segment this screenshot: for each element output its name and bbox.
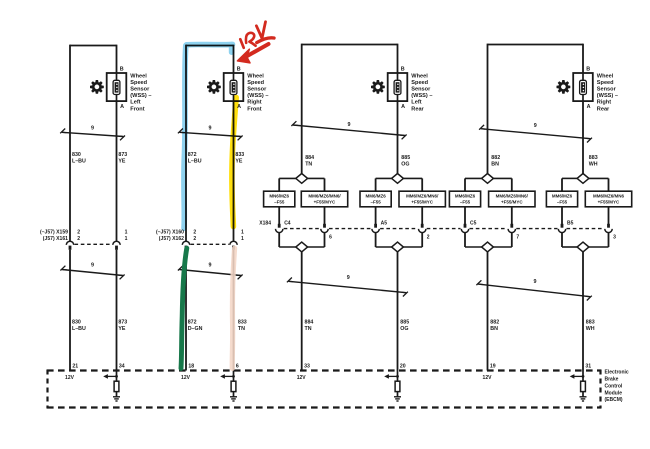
svg-text:Sensor: Sensor xyxy=(411,87,431,93)
wire splice arm left, pair 2 xyxy=(376,177,392,179)
svg-text:9: 9 xyxy=(534,279,537,285)
svg-text:Front: Front xyxy=(130,106,144,112)
svg-text:A: A xyxy=(587,104,591,110)
svg-text:2: 2 xyxy=(193,236,196,242)
svg-text:A: A xyxy=(120,104,124,110)
svg-text:9: 9 xyxy=(91,263,94,269)
svg-text:BN: BN xyxy=(491,162,499,168)
svg-text:873: 873 xyxy=(118,152,127,158)
svg-text:2: 2 xyxy=(77,229,80,235)
svg-text:9: 9 xyxy=(209,125,212,131)
svg-text:Left: Left xyxy=(411,100,421,106)
wheel speed sensor WSS Right Front xyxy=(224,73,244,101)
svg-text:883: 883 xyxy=(589,155,598,161)
svg-text:2: 2 xyxy=(77,236,80,242)
svg-text:21: 21 xyxy=(72,364,78,370)
wire label 873 YE lower xyxy=(118,320,127,332)
wire front circuit 1 left, lower run to EBCM xyxy=(69,250,71,371)
svg-text:Front: Front xyxy=(247,106,261,112)
svg-text:12V: 12V xyxy=(297,375,307,381)
svg-text:MM6/MZ6: MM6/MZ6 xyxy=(455,194,476,199)
highlighter mark: yellow over 833 upper run xyxy=(232,98,236,227)
svg-text:1: 1 xyxy=(125,229,128,235)
svg-text:Sensor: Sensor xyxy=(130,87,150,93)
component name label: Wheel Speed Sensor (WSS) WSS Left Rear xyxy=(411,74,432,113)
wire splice arm right, pair 3 xyxy=(493,177,511,179)
svg-text:Right: Right xyxy=(597,100,611,106)
svg-text:BN: BN xyxy=(490,326,498,332)
gear / tone wheel icon for WSS Left Rear xyxy=(371,80,385,94)
svg-text:872: 872 xyxy=(188,152,197,158)
svg-text:–F55: –F55 xyxy=(460,199,471,204)
svg-text:B: B xyxy=(120,66,124,72)
wire merge arm right, pair 3 xyxy=(493,246,511,248)
gear / tone wheel icon for WSS Left Front xyxy=(90,80,104,94)
wire rear circuit 4 right, to sensor pin B xyxy=(582,44,584,73)
wire right branch to connector X184, pair 4 xyxy=(608,207,610,225)
svg-text:31: 31 xyxy=(585,364,591,370)
wire splice arm left, pair 3 xyxy=(465,177,482,179)
harness crossing symbol "9" (RR lower) xyxy=(476,279,591,300)
wire label 833 YE upper xyxy=(235,152,244,164)
svg-text:872: 872 xyxy=(188,320,197,326)
wire right branch into option box, pair 2 xyxy=(421,178,423,191)
svg-text:833: 833 xyxy=(238,320,247,326)
svg-text:WH: WH xyxy=(586,326,595,332)
wire front circuit 1 right, to sensor pin B xyxy=(116,45,118,73)
svg-text:2: 2 xyxy=(427,235,430,241)
inline connector terminal X160/X162 cavity 2 xyxy=(182,241,189,250)
svg-text:B: B xyxy=(586,66,590,72)
wire merged wire to EBCM, pair 4 xyxy=(582,252,584,371)
wire left branch into option box, pair 3 xyxy=(464,178,466,191)
option box MM6/MZ6 –F55 (pair 4) xyxy=(546,191,577,207)
svg-text:D–GN: D–GN xyxy=(188,326,203,332)
wire left branch below X184, pair 2 xyxy=(375,233,377,247)
wire label 884 TN lower xyxy=(305,320,314,332)
svg-text:B: B xyxy=(237,66,241,72)
svg-text:Rear: Rear xyxy=(597,106,610,112)
svg-text:Brake: Brake xyxy=(605,377,619,383)
wire right branch below X184, pair 1 xyxy=(324,233,326,247)
splice junction split S3 top xyxy=(482,174,494,184)
wire right branch to connector X184, pair 1 xyxy=(324,207,326,225)
option box MM6/MZ6 –F55 (pair 3) xyxy=(449,191,480,207)
wire splice arm right, pair 2 xyxy=(403,177,422,179)
pin numbers 2/2 at connector X159/X161 left xyxy=(77,229,80,242)
splice junction splice S3 bottom xyxy=(482,242,494,252)
svg-text:(WSS) –: (WSS) – xyxy=(130,93,151,99)
svg-text:18: 18 xyxy=(188,364,194,370)
svg-text:9: 9 xyxy=(91,125,94,131)
wire front circuit 2 right, sensor pin A down to connector xyxy=(233,101,235,241)
splice junction split S2 top xyxy=(392,174,404,184)
svg-text:TN: TN xyxy=(305,162,312,168)
wire left branch into option box, pair 1 xyxy=(278,178,280,191)
splice junction split S1 top xyxy=(296,174,308,184)
gear / tone wheel icon for WSS Right Front xyxy=(207,80,221,94)
inline connector terminal X184 pin 6 xyxy=(321,224,328,233)
wire merge arm left, pair 3 xyxy=(465,246,482,248)
svg-text:6: 6 xyxy=(329,235,332,241)
svg-text:B: B xyxy=(401,66,405,72)
wire label 884 TN upper xyxy=(305,155,314,167)
wire label 883 WH upper xyxy=(589,155,598,167)
harness crossing symbol "9" (LR upper) xyxy=(291,121,406,139)
splice junction splice S1 bottom xyxy=(296,242,308,252)
svg-text:WH: WH xyxy=(589,162,598,168)
svg-text:Left: Left xyxy=(130,100,140,106)
wire rear circuit 3 right, to sensor pin B xyxy=(397,44,399,73)
wire front circuit 2 left, upper run xyxy=(185,45,187,241)
svg-text:A: A xyxy=(401,104,405,110)
inline connector terminal X184 C5 xyxy=(461,224,468,233)
wire right branch below X184, pair 4 xyxy=(608,233,610,247)
svg-text:Wheel: Wheel xyxy=(130,74,147,80)
module name label: Electronic Brake Control Module (EBCM) xyxy=(605,370,629,404)
svg-text:9: 9 xyxy=(209,263,212,269)
svg-text:882: 882 xyxy=(491,155,500,161)
wire merge arm left, pair 2 xyxy=(376,246,392,248)
svg-text:X184: X184 xyxy=(259,221,271,227)
wire label 830 L-BU upper xyxy=(72,152,86,164)
option box MM6/MZ6/MN6/ +F55/MYC (pair 2) xyxy=(399,191,445,207)
svg-text:Speed: Speed xyxy=(130,80,147,86)
wheel speed sensor WSS Right Rear xyxy=(573,73,593,101)
pin numbers 2/2 at connector X160/X162 left xyxy=(193,229,196,242)
wire right branch into option box, pair 4 xyxy=(608,178,610,191)
svg-text:(–J57) X160: (–J57) X160 xyxy=(156,229,184,235)
svg-text:(WSS) –: (WSS) – xyxy=(247,93,268,99)
wire splice arm right, pair 4 xyxy=(589,177,609,179)
svg-text:L–BU: L–BU xyxy=(72,159,86,165)
wire front circuit 2 right, lower run to EBCM xyxy=(233,250,235,371)
wire merged wire to EBCM, pair 1 xyxy=(301,252,303,371)
wire label 885 OG lower xyxy=(400,320,409,332)
svg-text:9: 9 xyxy=(534,123,537,129)
svg-text:OG: OG xyxy=(401,162,409,168)
svg-text:YE: YE xyxy=(235,159,243,165)
wire rear circuit 4 right, pin A down to splice xyxy=(582,101,584,174)
splice junction split S4 top xyxy=(577,174,589,184)
svg-text:884: 884 xyxy=(305,155,314,161)
svg-text:(–J57) X159: (–J57) X159 xyxy=(40,229,68,235)
svg-text:34: 34 xyxy=(119,364,125,370)
svg-text:12V: 12V xyxy=(483,375,493,381)
svg-text:Right: Right xyxy=(247,100,261,106)
svg-text:TN: TN xyxy=(305,326,312,332)
svg-text:885: 885 xyxy=(400,320,409,326)
svg-text:B5: B5 xyxy=(567,221,574,227)
svg-text:+F55/MYC: +F55/MYC xyxy=(501,199,523,204)
wire right branch to connector X184, pair 3 xyxy=(511,207,513,225)
svg-text:(J57) X162: (J57) X162 xyxy=(159,236,184,242)
pin numbers 1/1 at connector X159/X161 right xyxy=(125,229,128,242)
svg-text:L–BU: L–BU xyxy=(188,159,202,165)
wire left branch to connector X184, pair 3 xyxy=(464,207,466,225)
internal pull-down: arrow, resistor and ground at terminal 31 (883 return) xyxy=(570,371,587,402)
svg-text:MM6/MZ6/MN6/: MM6/MZ6/MN6/ xyxy=(496,194,529,199)
svg-text:Electronic: Electronic xyxy=(605,370,629,376)
wire left branch into option box, pair 4 xyxy=(561,178,563,191)
wheel speed sensor WSS Left Front xyxy=(107,73,127,101)
wire splice arm left, pair 4 xyxy=(562,177,577,179)
inline connector terminal X184 pin 3 xyxy=(605,224,612,233)
wire top loop of rear circuit 4 xyxy=(488,44,584,46)
dashed connector body X159/X161 xyxy=(75,243,113,245)
component name label: Wheel Speed Sensor (WSS) WSS Right Front xyxy=(247,74,268,113)
svg-text:+F55/MYC: +F55/MYC xyxy=(598,199,620,204)
svg-text:1: 1 xyxy=(241,229,244,235)
wire top loop of rear circuit 3 xyxy=(302,44,398,46)
wire right branch into option box, pair 3 xyxy=(511,178,513,191)
svg-text:873: 873 xyxy=(118,320,127,326)
harness crossing symbol "9" (LF lower) xyxy=(60,263,124,280)
handwritten annotation: red "12V" text xyxy=(240,22,274,48)
wire front circuit 2 left, lower run to EBCM xyxy=(185,250,187,371)
svg-text:(J57) X161: (J57) X161 xyxy=(43,236,68,242)
svg-text:Rear: Rear xyxy=(411,106,424,112)
svg-text:–F55: –F55 xyxy=(274,199,285,204)
svg-text:882: 882 xyxy=(490,320,499,326)
svg-text:YE: YE xyxy=(118,326,126,332)
svg-text:19: 19 xyxy=(490,364,496,370)
svg-text:OG: OG xyxy=(400,326,408,332)
inline connector terminal X159/X161 cavity 1 xyxy=(113,241,120,250)
wire left branch to connector X184, pair 1 xyxy=(278,207,280,225)
svg-text:885: 885 xyxy=(401,155,410,161)
svg-text:Wheel: Wheel xyxy=(411,74,428,80)
wire right branch below X184, pair 3 xyxy=(511,233,513,247)
svg-text:884: 884 xyxy=(305,320,314,326)
option box MN6/MZ6 –F55 (pair 1) xyxy=(264,191,295,207)
wire left branch below X184, pair 4 xyxy=(561,233,563,247)
wire label 833 TN lower xyxy=(238,320,247,332)
svg-text:+F55/MYC: +F55/MYC xyxy=(411,199,433,204)
wire rear circuit 3 left, upper run to splice xyxy=(301,44,303,174)
svg-text:MM6/MZ6: MM6/MZ6 xyxy=(365,194,386,199)
option box MM6/MZ6/MN6 +F55/MYC (pair 4) xyxy=(585,191,631,207)
wire left branch below X184, pair 1 xyxy=(278,233,280,247)
harness crossing symbol "9" (RF lower) xyxy=(178,263,243,280)
wire front circuit 1 right, sensor pin A down to connector xyxy=(116,101,118,241)
svg-text:(EBCM): (EBCM) xyxy=(605,397,623,403)
svg-text:Wheel: Wheel xyxy=(247,74,264,80)
wire front circuit 2 right, to sensor pin B xyxy=(233,45,235,73)
svg-text:MM6/MZ6: MM6/MZ6 xyxy=(552,194,573,199)
harness crossing symbol "9" (RR upper) xyxy=(479,123,592,142)
option box MM6/MZ6 –F55 (pair 2) xyxy=(360,191,391,207)
svg-text:12V: 12V xyxy=(65,375,75,381)
svg-text:(WSS) –: (WSS) – xyxy=(597,93,618,99)
wire label 882 BN lower xyxy=(490,320,499,332)
wire merged wire to EBCM, pair 2 xyxy=(397,252,399,371)
svg-text:833: 833 xyxy=(235,152,244,158)
inline connector terminal X184 A5 xyxy=(372,224,379,233)
inline connector names X159/X161 (left front) xyxy=(40,229,68,242)
internal pull-down: arrow, resistor and ground at terminal 34 (873 return) xyxy=(103,371,120,402)
svg-text:A5: A5 xyxy=(381,221,388,227)
svg-text:Speed: Speed xyxy=(597,80,614,86)
svg-text:33: 33 xyxy=(304,364,310,370)
svg-text:MN6/MZ6: MN6/MZ6 xyxy=(269,194,289,199)
inline connector terminal X184 C4 xyxy=(276,224,283,233)
splice junction splice S2 bottom xyxy=(392,242,404,252)
svg-text:9: 9 xyxy=(348,122,351,128)
svg-text:883: 883 xyxy=(586,320,595,326)
highlighter mark: dark green over 872 lower run xyxy=(181,248,187,368)
inline connector terminal X159/X161 cavity 2 xyxy=(66,241,73,250)
svg-text:1: 1 xyxy=(241,236,244,242)
wire front circuit 1 right, lower run to EBCM xyxy=(116,250,118,371)
wire label 873 YE upper xyxy=(118,152,127,164)
svg-text:12V: 12V xyxy=(181,375,191,381)
wire right branch to connector X184, pair 2 xyxy=(421,207,423,225)
harness crossing symbol "9" (LR lower) xyxy=(287,275,408,296)
svg-text:(WSS) –: (WSS) – xyxy=(411,93,432,99)
wire left branch to connector X184, pair 2 xyxy=(375,207,377,225)
svg-text:Wheel: Wheel xyxy=(597,74,614,80)
option box MM6/MZ6/MN6/ +F55/MYC (pair 1) xyxy=(301,191,347,207)
internal pull-down: arrow, resistor and ground at terminal 6 (833 return) xyxy=(220,371,237,402)
wire splice arm right, pair 1 xyxy=(308,177,325,179)
svg-text:MM6/MZ6/MN6/: MM6/MZ6/MN6/ xyxy=(308,194,341,199)
wire splice arm left, pair 1 xyxy=(279,177,296,179)
wire front circuit 1 left, upper run xyxy=(69,45,71,241)
splice junction splice S4 bottom xyxy=(577,242,589,252)
inline connector terminal X160/X162 cavity 1 xyxy=(230,241,237,250)
svg-text:Module: Module xyxy=(605,390,623,396)
highlighter mark: light blue over 872 upper run xyxy=(184,44,233,228)
wire merge arm right, pair 4 xyxy=(589,246,609,248)
inline connector terminal X184 B5 xyxy=(558,224,565,233)
wire label 882 BN upper xyxy=(491,155,500,167)
svg-text:MM6/MZ6/MN6/: MM6/MZ6/MN6/ xyxy=(406,194,439,199)
wire merged wire to EBCM, pair 3 xyxy=(487,252,489,371)
wire rear circuit 3 right, pin A down to splice xyxy=(397,101,399,174)
wire merge arm right, pair 1 xyxy=(308,246,325,248)
svg-text:Sensor: Sensor xyxy=(247,87,267,93)
inline connector names X160/X162 (right front) xyxy=(156,229,184,242)
svg-text:830: 830 xyxy=(72,320,81,326)
inline connector terminal X184 pin 7 xyxy=(508,224,515,233)
handwritten annotation: red arrow pointing at WSS-RF pin B xyxy=(237,44,268,63)
component name label: Wheel Speed Sensor (WSS) WSS Left Front xyxy=(130,74,151,113)
svg-text:Control: Control xyxy=(605,383,623,389)
wire left branch below X184, pair 3 xyxy=(464,233,466,247)
wire label 872 D-GN lower xyxy=(188,320,203,332)
wire merge arm right, pair 2 xyxy=(403,246,422,248)
svg-text:Sensor: Sensor xyxy=(597,87,617,93)
svg-text:20: 20 xyxy=(400,364,406,370)
wire label 883 WH lower xyxy=(586,320,595,332)
wire merge arm left, pair 1 xyxy=(279,246,296,248)
svg-text:C4: C4 xyxy=(284,221,291,227)
harness connector X184 dashed line xyxy=(284,228,604,230)
svg-text:2: 2 xyxy=(193,229,196,235)
wire left branch to connector X184, pair 4 xyxy=(561,207,563,225)
harness crossing symbol "9" (LF upper) xyxy=(60,125,125,140)
wire top loop of front circuit 1 xyxy=(70,45,117,47)
wire left branch into option box, pair 2 xyxy=(375,178,377,191)
svg-text:Speed: Speed xyxy=(411,80,428,86)
wire top loop of front circuit 2 xyxy=(186,45,234,47)
internal pull-down: arrow, resistor and ground at terminal 20 (885 return) xyxy=(384,371,401,402)
svg-text:TN: TN xyxy=(238,326,245,332)
wire right branch below X184, pair 2 xyxy=(421,233,423,247)
svg-text:C5: C5 xyxy=(470,221,477,227)
wire label 830 L-BU lower xyxy=(72,320,86,332)
svg-text:9: 9 xyxy=(347,275,350,281)
option box MM6/MZ6/MN6/ +F55/MYC (pair 3) xyxy=(489,191,535,207)
svg-text:3: 3 xyxy=(613,235,616,241)
svg-text:830: 830 xyxy=(72,152,81,158)
wire label 872 upper xyxy=(188,152,202,164)
gear / tone wheel icon for WSS Right Rear xyxy=(557,80,571,94)
Electronic Brake Control Module (EBCM) dashed outline xyxy=(47,370,601,409)
wire label 885 OG upper xyxy=(401,155,410,167)
svg-text:–F55: –F55 xyxy=(370,199,381,204)
svg-text:6: 6 xyxy=(236,364,239,370)
inline connector terminal X184 pin 2 xyxy=(419,224,426,233)
svg-text:Speed: Speed xyxy=(247,80,264,86)
dashed connector body X160/X162 xyxy=(191,243,230,245)
wire merge arm left, pair 4 xyxy=(562,246,577,248)
svg-text:7: 7 xyxy=(516,235,519,241)
wheel speed sensor WSS Left Rear xyxy=(388,73,408,101)
wire rear circuit 4 left, upper run to splice xyxy=(487,44,489,174)
harness crossing symbol "9" (RF upper) xyxy=(178,125,243,140)
svg-text:–F55: –F55 xyxy=(557,199,568,204)
wire right branch into option box, pair 1 xyxy=(324,178,326,191)
svg-text:+F55/MYC: +F55/MYC xyxy=(314,199,336,204)
svg-text:1: 1 xyxy=(125,236,128,242)
pin numbers 1/1 at connector X160/X162 right xyxy=(241,229,244,242)
svg-text:L–BU: L–BU xyxy=(72,326,86,332)
component name label: Wheel Speed Sensor (WSS) WSS Right Rear xyxy=(597,74,618,113)
svg-text:MM6/MZ6/MN6: MM6/MZ6/MN6 xyxy=(593,194,624,199)
svg-text:YE: YE xyxy=(118,159,126,165)
highlighter mark: tan over 833 lower run xyxy=(232,248,234,368)
